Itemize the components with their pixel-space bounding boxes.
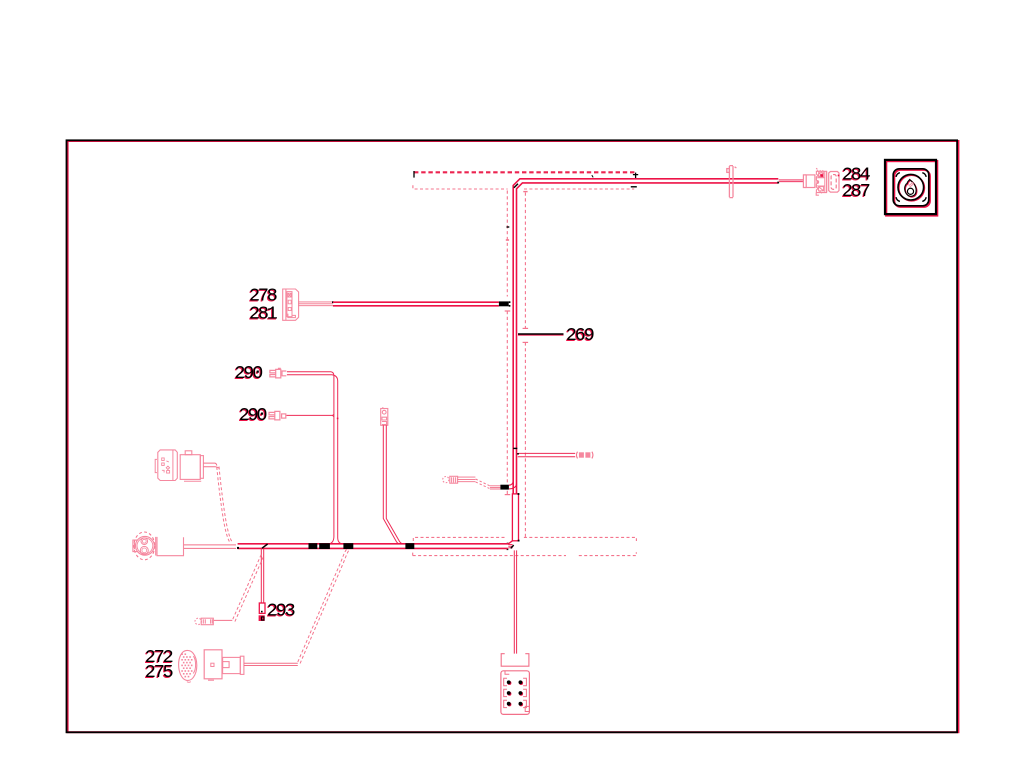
right connector bottom lip [184,480,201,482]
small black tick on top wire [592,175,593,177]
harness bottom corner hatch [508,545,512,548]
connector 293 housing [259,603,265,613]
wire from small ring terminal [214,619,233,621]
grommet inner lip arc [193,656,195,673]
black tick at 293 junction [262,544,268,548]
wires from right connector [204,463,219,468]
grommet dot pattern [181,653,192,677]
small ring terminal lower left dotted ring [195,618,201,624]
bottom connector entry bracket [501,654,529,667]
curve of 290 wires into harness right [338,538,344,544]
black dot in 293 housing [261,611,263,613]
thin dashed guide line top left segment [413,185,508,189]
black tick at top corner [514,184,518,188]
small ring terminal body [201,618,213,625]
thin dashed guide line top right segment [524,188,634,190]
dashed frame line lower left segment [413,552,566,555]
round connector outer circle [136,536,155,555]
connector body B top hatch [817,170,824,172]
icon rounded square red underlay [894,170,930,207]
round connector inner ring [137,538,153,554]
cap tick top of right guide [523,191,527,193]
black tick on left guide [507,226,510,228]
bottom connector pins black [507,680,522,705]
connector body B inner bottom square [819,187,824,194]
bold wire 278 to harness [333,302,499,306]
main horizontal harness bottom line [238,547,508,549]
terminal 290 second [269,411,286,420]
tick right end of bold dashed [633,173,638,179]
grommet bottom tick [187,681,191,684]
right connector top tab [185,451,192,455]
wire pair down to 293 [261,549,263,603]
svg-text:290: 290 [239,405,267,426]
black dots after tape [509,301,511,303]
connector 284/287 body B outline [816,171,826,192]
wire pair down from inline terminal [383,425,403,544]
icon circle red underlay [899,175,925,201]
plug on 272/275 connector inner rect [223,662,230,668]
branch wire to mini connector [518,453,575,456]
black dot harness left end [237,547,239,549]
icon rounded square black [893,169,929,206]
label 269 pointer line red underlay [518,334,564,336]
grommet blob left of 272 connector [179,651,197,681]
thin wire pair from box to harness [184,545,236,549]
curve of 290 wires into harness left [329,537,334,544]
icon corner arcs [896,173,926,202]
icon box outer black [885,160,936,214]
connector 272/275 housing [204,650,222,679]
connector 272/275 bottom tab [208,679,214,681]
T tick on right guide above 269 line [523,327,529,329]
black mark in 293 terminal [262,617,265,620]
connector 272/275 inner square [211,663,214,666]
black dot at end of thick top wire [777,182,779,184]
harness sleeve rect [512,494,518,541]
mini connector dash blocks [579,452,584,457]
thin wire triple from connector 278 [299,302,333,306]
dashed vertical guide left of harness [506,191,508,495]
right connector right cap [200,456,203,479]
dashed wire pair down to harness [217,467,232,542]
icon flame inner hole [907,188,913,194]
drop wire to bottom connector [514,550,516,653]
mini connector dashed brackets [576,452,593,459]
bottom connector housing [501,671,530,715]
curves joining harness [509,481,517,489]
dashed diagonal wire pair up to harness [233,554,264,622]
connector body B middle bump [816,180,819,184]
dashed frame line upper left segment [413,537,507,541]
grommet on top wire [727,166,737,198]
single wire from 290 second [287,414,333,416]
main harness inner line [517,183,779,494]
junction wedge at vertical wire [333,414,334,416]
icon circle black [898,174,924,200]
triple wire from ring terminal [458,477,476,482]
bottom connector bottom-right notch [525,706,529,711]
connector 278/281 bottom foot [288,314,296,318]
main horizontal harness top line [238,543,509,545]
icon flame inner red hatch [909,182,914,187]
black dot at branch start [517,453,519,455]
bottom connector left comb [504,678,507,707]
harness start box [156,537,184,556]
bracket left of round connector [133,540,138,552]
connector 284/287 rect C outline [829,172,839,193]
dashed diagonal wire pair [476,479,490,488]
T tick below 278 wire on left guide [505,310,511,312]
tick left end of bold dashed [413,171,415,178]
bottom connector top-left notch [505,671,509,675]
svg-text:269: 269 [566,325,594,346]
connector separator bars [825,171,827,192]
black dots at corner left [507,543,509,545]
tape marks on horizontal harness [309,543,318,549]
bottom connector pins red underlay [507,681,523,706]
tape mark on 278 wire [499,301,509,306]
plug end bar [240,656,244,674]
icon box outer red underlay [886,161,937,215]
round connector dashed oval [134,532,155,560]
wire segment before tape [490,486,501,489]
thin wire pair to connector 284 [779,180,804,182]
frame red underlay [68,141,959,732]
inline terminal on middle wire [381,408,388,426]
black tick crossing harness above branch [513,447,517,449]
svg-text:287: 287 [842,181,870,202]
main harness top corner and horizontal run outer line [513,179,778,494]
connector body B top tick [816,168,817,169]
connector 278/281 inner column [287,292,292,317]
black dot sleeve bottom right [518,540,520,542]
corner bevel top [508,541,512,544]
dashed vertical guide right of harness [524,193,526,537]
connector 284/287 rect A [806,175,815,188]
upper connector pair right connector [180,455,200,480]
ring terminal mid left dotted ring [443,477,449,483]
connector 278/281 inner marks [288,293,291,310]
tape mark before harness join [500,485,509,490]
dashed frame line upper right segment [524,537,637,541]
connector body B bottom foot [816,193,819,196]
svg-text:293: 293 [267,600,295,621]
svg-text:290: 290 [234,363,262,384]
svg-text:281: 281 [249,303,278,324]
frame black border [67,140,958,732]
connector rect C inner rounded rect [831,175,836,190]
black diagonal tick at bottom corner [511,545,514,548]
left connector inner marks [162,458,170,473]
dashed diagonal wire pair up to harness from plug [298,549,350,663]
wire pair from 290 first [287,372,338,538]
wire pair from plug [244,663,298,665]
dashed frame line lower right segment [579,552,637,555]
round connector pin bottom [140,546,148,554]
connector body B inner top square [819,173,824,177]
black dot sleeve top right [518,493,520,495]
bottom connector right comb [523,678,526,707]
ring terminal crimp body [450,476,458,483]
icon flame black [905,180,917,197]
bracket left of left connector [155,459,157,472]
upper connector pair left connector [158,450,178,481]
connector body B red accent [820,174,823,177]
plug outer rect [223,657,241,673]
T tick on right guide below 269 line [523,341,529,343]
label 269 pointer line [518,333,564,335]
round connector pin top [141,538,148,545]
pink cap on left guide [506,239,509,241]
bold dashed tape line top [414,171,636,173]
connector rect C red dot [838,175,840,177]
left connector inner column [172,450,174,480]
terminal 290 first [270,368,286,378]
connector 284/287 step bracket [803,175,806,188]
svg-text:275: 275 [145,662,173,683]
icon flame red underlay [905,180,917,197]
red dot at junction [337,418,339,420]
connector body B divider lines [816,178,824,186]
T tick bottom end of left guide [505,494,511,496]
connector 293 terminal filled [259,615,265,621]
connector 278/281 outline [283,289,299,320]
black dash right end of thin guide [631,186,637,188]
black dot start of bold 278 wire [332,301,334,303]
